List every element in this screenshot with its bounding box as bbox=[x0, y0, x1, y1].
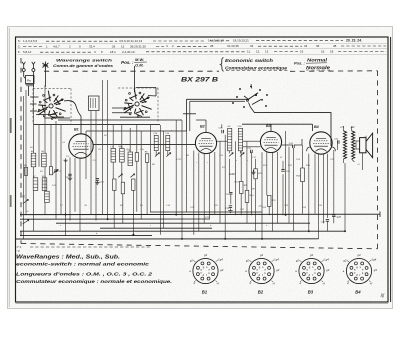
wire bus row 1 bbox=[150, 211, 262, 213]
gang C14 arrow bbox=[166, 153, 170, 157]
transformer T1 secondary bbox=[352, 131, 355, 159]
capacitor C18 bbox=[221, 130, 223, 133]
svg-text:B4: B4 bbox=[355, 290, 361, 295]
svg-text:g3: g3 bbox=[220, 268, 223, 272]
svg-text:11.: 11. bbox=[247, 50, 251, 54]
wire row 120 bbox=[58, 119, 182, 121]
wire vertical drops bbox=[23, 96, 25, 239]
svg-text:B2: B2 bbox=[258, 290, 264, 295]
svg-text:1° 4,: 1° 4, bbox=[16, 245, 22, 249]
svg-text:Waverange switch: Waverange switch bbox=[56, 57, 113, 62]
wafer switch S2 bbox=[135, 102, 139, 106]
padder trimmer C2 bbox=[54, 169, 57, 171]
drawing frame bbox=[16, 37, 389, 302]
volume pot P2 arrow bbox=[23, 199, 29, 203]
resistor R5 bbox=[132, 179, 135, 190]
svg-text:Pos. :: Pos. : bbox=[294, 60, 306, 65]
svg-text:Comm.de gamme d’ondes: Comm.de gamme d’ondes bbox=[53, 63, 114, 68]
wire aerial pad down bbox=[28, 86, 30, 96]
svg-text:S²: S² bbox=[280, 156, 282, 159]
svg-text:Commutateur economique : nor: Commutateur economique : normale et econ… bbox=[16, 279, 172, 285]
earth terminal bbox=[44, 62, 46, 70]
capacitor C24 bbox=[292, 145, 294, 148]
tube B4 side pips bbox=[307, 147, 310, 151]
resistor R9 bbox=[239, 181, 243, 193]
svg-text:2,4,30,10: 2,4,30,10 bbox=[122, 50, 135, 54]
coil S11 bbox=[45, 191, 50, 202]
svg-text:B3: B3 bbox=[308, 290, 314, 295]
svg-text:12.: 12. bbox=[256, 50, 260, 54]
wafer S2 housing bbox=[118, 87, 158, 89]
svg-text:BX 297 B: BX 297 B bbox=[181, 77, 218, 84]
svg-text:economic-switch : normal an: economic-switch : normal and economic bbox=[16, 262, 149, 268]
svg-text:º 4′: º 4′ bbox=[16, 249, 20, 253]
svg-text:4,5,9,10,11,12,13: 4,5,9,10,11,12,13 bbox=[119, 39, 142, 43]
wire B3 anode row bbox=[282, 144, 293, 146]
wire bus row 3 bbox=[56, 222, 310, 224]
capacitor C9 bbox=[68, 173, 71, 175]
wire B4 grid corner bbox=[312, 124, 314, 131]
resistor R3 bbox=[113, 179, 116, 190]
svg-text:Pos. :: Pos. : bbox=[121, 60, 134, 65]
page number bbox=[379, 292, 385, 299]
capacitor C27 bbox=[332, 214, 335, 216]
svg-text:5,8,12: 5,8,12 bbox=[23, 50, 32, 54]
svg-text:S:: S: bbox=[18, 39, 21, 43]
wire bus row 6 bbox=[20, 235, 152, 237]
svg-text:Normale: Normale bbox=[306, 65, 331, 70]
gang capacitor C14 bbox=[166, 135, 170, 150]
svg-text:28,29,31,35: 28,29,31,35 bbox=[130, 44, 146, 48]
chassis dashed border bottom bbox=[21, 244, 378, 249]
tube B1 bbox=[69, 134, 93, 158]
svg-text:g2: g2 bbox=[296, 258, 299, 262]
svg-text:26: 26 bbox=[112, 44, 116, 48]
svg-text:18,1: 18,1 bbox=[110, 50, 116, 54]
resistor R7 bbox=[135, 153, 138, 162]
resistor R11 bbox=[267, 195, 271, 206]
wire bus heater bbox=[16, 238, 319, 240]
wire row 131 bbox=[86, 130, 187, 132]
wire B3 grid feed bbox=[270, 124, 272, 131]
svg-text:13.: 13. bbox=[265, 50, 269, 54]
capacitor C22 bbox=[229, 191, 232, 193]
svg-text:g3: g3 bbox=[276, 268, 279, 272]
wire B2 grid cap bbox=[205, 120, 207, 132]
ground lug left bbox=[64, 159, 68, 161]
svg-text:+f: +f bbox=[322, 282, 325, 286]
trimmer C11 arrow bbox=[118, 174, 122, 178]
svg-text:B1: B1 bbox=[74, 127, 79, 131]
tube B4 bbox=[310, 132, 332, 154]
capacitor C25 bbox=[336, 140, 338, 143]
capacitor C23 bbox=[281, 169, 284, 171]
junction dots bbox=[65, 214, 67, 216]
wire bus HT bbox=[20, 213, 380, 215]
svg-text:28: 28 bbox=[210, 44, 214, 48]
tube B2 bbox=[195, 132, 216, 153]
socket B1 base bbox=[193, 258, 218, 283]
wafer S2 contact plate bbox=[136, 87, 156, 89]
wire S3 link left bbox=[187, 98, 248, 100]
chassis dashed border left bbox=[20, 58, 22, 244]
svg-text:WaveRanges : Med., Sub., Sub.: WaveRanges : Med., Sub., Sub. bbox=[16, 254, 120, 260]
aerial pad box Pa bbox=[26, 76, 35, 84]
svg-text:g2: g2 bbox=[343, 258, 346, 262]
IF coil C20 bbox=[238, 128, 242, 150]
coil S9 bbox=[42, 153, 47, 167]
transformer T1 leads bbox=[342, 126, 344, 131]
svg-text:+f: +f bbox=[272, 282, 275, 286]
wire B1 to B2 grid row bbox=[93, 144, 195, 146]
wire bus row 2 bbox=[20, 218, 210, 220]
socket B2 base bbox=[249, 258, 274, 283]
resistor R16 bbox=[301, 168, 305, 182]
chassis dashed border top bbox=[44, 70, 219, 72]
resistor R10 bbox=[245, 190, 249, 202]
svg-text:g3: g3 bbox=[374, 268, 377, 272]
coil L10 bbox=[120, 149, 125, 163]
AVC pot arrow bbox=[23, 220, 29, 224]
resistor R4 bbox=[121, 182, 124, 194]
coil S10 bbox=[42, 178, 47, 191]
IF1 trimmer arrows bbox=[229, 153, 233, 157]
wire speaker leads bbox=[356, 140, 360, 142]
chassis dashed border right bbox=[377, 71, 379, 249]
svg-text:M.W.: M.W. bbox=[135, 57, 144, 62]
svg-text:16: 16 bbox=[321, 49, 325, 53]
wire S2 control stem bbox=[134, 66, 136, 92]
coupling box L5 bbox=[89, 96, 100, 111]
svg-text:+f: +f bbox=[216, 282, 219, 286]
coil L8 bbox=[128, 152, 133, 166]
wire S1 to B1 grid bbox=[64, 101, 81, 134]
antenna terminal A1 bbox=[22, 69, 25, 72]
svg-text:34: 34 bbox=[304, 44, 308, 48]
svg-text:Longueurs d’ondes : O.M. ,: Longueurs d’ondes : O.M. , O.C. 3 , O.C.… bbox=[16, 271, 152, 277]
svg-text:18,19,20,21: 18,19,20,21 bbox=[233, 39, 249, 43]
svg-text:1,2,3,4,5,6: 1,2,3,4,5,6 bbox=[23, 39, 38, 43]
svg-text:g2: g2 bbox=[190, 258, 193, 262]
svg-text:33,4: 33,4 bbox=[89, 45, 95, 49]
svg-text:f,g4: f,g4 bbox=[324, 258, 329, 262]
resistor R2 bbox=[49, 167, 52, 175]
tally table row separators bbox=[18, 43, 388, 45]
svg-text:C:: C: bbox=[18, 45, 21, 49]
wafer switch S1 bbox=[49, 104, 53, 108]
wire bus row 4 bbox=[100, 227, 212, 229]
trimmer C12 arrow bbox=[130, 174, 134, 178]
wafer S1 housing bbox=[33, 88, 71, 90]
svg-text:12: 12 bbox=[121, 44, 125, 48]
svg-text:g4: g4 bbox=[260, 253, 263, 257]
wire wafer S1 stubs bbox=[30, 96, 39, 98]
svg-text:+72: +72 bbox=[340, 126, 345, 129]
svg-text:g4: g4 bbox=[310, 253, 313, 257]
wire row 125 bbox=[34, 124, 161, 126]
socket B4 base bbox=[346, 258, 371, 283]
svg-text:+75V: +75V bbox=[176, 159, 182, 161]
capacitor C10 bbox=[96, 178, 99, 180]
capacitor C16 bbox=[229, 205, 232, 207]
svg-text:16: 16 bbox=[300, 49, 304, 53]
svg-text:31,33,35: 31,33,35 bbox=[227, 44, 239, 48]
svg-text:B4: B4 bbox=[314, 125, 319, 129]
svg-text:+f: +f bbox=[370, 282, 373, 286]
svg-text:g3: g3 bbox=[326, 268, 329, 272]
economy switch label brace bbox=[221, 58, 224, 72]
svg-text:f,g4: f,g4 bbox=[218, 258, 223, 262]
gang C13 arrow bbox=[155, 153, 159, 157]
loudspeaker bbox=[360, 138, 366, 153]
wire IF2 link bbox=[243, 146, 261, 148]
resistor R1 bbox=[24, 167, 27, 175]
gang capacitor C13 bbox=[154, 135, 158, 150]
resistor R12 bbox=[254, 169, 258, 179]
svg-text:g4: g4 bbox=[204, 253, 207, 257]
svg-text:B1: B1 bbox=[202, 290, 208, 295]
wafer switch S3 bbox=[247, 93, 258, 100]
svg-text:18: 18 bbox=[330, 49, 334, 53]
wire S3 to output stage bbox=[251, 107, 332, 146]
svg-text:g2: g2 bbox=[246, 258, 249, 262]
svg-text:38: 38 bbox=[333, 44, 337, 48]
svg-text:+22: +22 bbox=[350, 126, 355, 129]
svg-text:O.M.: O.M. bbox=[135, 63, 144, 68]
svg-text:4,6,7: 4,6,7 bbox=[53, 45, 60, 49]
wire bus row 5 bbox=[20, 230, 345, 232]
capacitor C17 bbox=[250, 150, 252, 153]
wire B2 plate row bbox=[217, 140, 228, 142]
coil L7 bbox=[111, 149, 116, 163]
transformer T1 primary bbox=[343, 131, 346, 159]
page left edge shading bbox=[8, 28, 10, 307]
svg-text:f,g4: f,g4 bbox=[372, 258, 377, 262]
svg-text:Pa: Pa bbox=[27, 79, 31, 83]
svg-text:C27: C27 bbox=[337, 216, 342, 219]
wire S3 stem bbox=[250, 84, 253, 89]
svg-text:Economic switch: Economic switch bbox=[225, 58, 274, 63]
svg-text:Commutateur economique: Commutateur economique bbox=[225, 65, 288, 70]
svg-text:36: 36 bbox=[316, 44, 320, 48]
IF coil C19 bbox=[228, 128, 232, 150]
ground lug B2 bbox=[252, 170, 254, 172]
wire wafer S2 stub bbox=[120, 116, 150, 118]
resistor R6 bbox=[145, 154, 148, 163]
svg-text:34: 34 bbox=[250, 44, 254, 48]
antenna terminal A2 bbox=[32, 69, 35, 72]
svg-text:20. 23. 24.: 20. 23. 24. bbox=[346, 38, 362, 42]
svg-text:f,g4: f,g4 bbox=[274, 258, 279, 262]
svg-text:g4: g4 bbox=[358, 253, 361, 257]
coil S7 bbox=[33, 178, 38, 191]
coil S6 bbox=[31, 153, 36, 167]
socket B3 base bbox=[299, 258, 324, 283]
svg-text:F:: F: bbox=[18, 50, 21, 54]
svg-text:Normal: Normal bbox=[307, 58, 328, 63]
tube B3 bbox=[260, 131, 281, 152]
capacitor C26 bbox=[326, 219, 329, 221]
